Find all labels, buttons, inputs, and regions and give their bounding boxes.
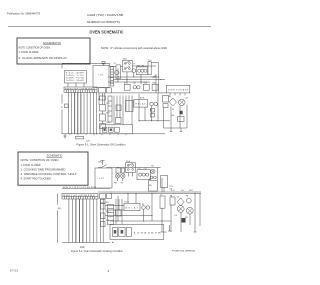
svg-text:3. VARIABLE COOKING CONTROL “H: 3. VARIABLE COOKING CONTROL “HIGH”: [21, 172, 77, 176]
wire hv stub c: [179, 93, 181, 96]
svg-text:SW2: SW2: [153, 76, 157, 78]
svg-text:2. COOKING TIME PROGRAMMED: 2. COOKING TIME PROGRAMMED: [21, 167, 66, 171]
wire stub down a: [117, 68, 119, 82]
control panel box 2: [110, 225, 164, 240]
wire stub down b: [126, 72, 128, 84]
wire pcb v7: [125, 96, 127, 112]
cavity thermal cutout box: [149, 176, 174, 192]
wire bundle w1: [68, 93, 70, 134]
filament block 1: [180, 111, 183, 114]
wire hv v2: [170, 106, 172, 128]
relay aux block a: [151, 109, 155, 113]
pcb connector column 2: [108, 205, 114, 225]
wire pcb2 v3: [121, 199, 123, 225]
thermal cutout TCO1: [148, 62, 151, 75]
wire legend stub a: [67, 83, 69, 87]
terminal block 2C: [107, 194, 112, 199]
svg-text:OL: OL: [133, 64, 135, 66]
svg-text:GY=GRY: GY=GRY: [77, 80, 85, 82]
wire bundle w8: [89, 93, 91, 134]
node N label: [61, 104, 68, 109]
wire interlock stub a: [127, 173, 129, 177]
wire h bus mid: [139, 120, 170, 122]
svg-text:NOTE: “A” indicate components: NOTE: “A” indicate components with poten…: [101, 46, 167, 50]
wire bundle2 w2: [71, 199, 73, 243]
motor labels: [114, 183, 124, 185]
wire pcb2 v1: [115, 199, 117, 225]
terminal block 2B: [100, 194, 106, 199]
svg-text:RY1: RY1: [106, 103, 109, 105]
svg-text:RY2: RY2: [106, 212, 109, 214]
wire pcb v9: [131, 96, 133, 125]
wire relay drop b: [127, 194, 129, 204]
svg-text:RY3: RY3: [106, 122, 109, 124]
HV diode D2 (diamond): [177, 198, 184, 206]
wire hv bottom stub: [164, 127, 188, 129]
svg-text:B W R Y G P O GY BL B W R: B W R Y G P O GY BL B W R: [64, 195, 96, 197]
svg-text:SCHEMATIC: SCHEMATIC: [47, 154, 64, 158]
wire right vertical 2: [158, 63, 160, 93]
node N label 2: [58, 208, 61, 210]
component labels sch1: [98, 59, 189, 125]
svg-text:OL1: OL1: [138, 168, 141, 170]
wire relay drop a: [117, 196, 119, 221]
wire bundle w4: [77, 93, 79, 134]
svg-text:D2: D2: [177, 196, 179, 198]
wire bundle w5: [80, 93, 82, 134]
schematic note box 2: [18, 152, 88, 185]
fuse holder stub: [102, 61, 105, 64]
relay contact block A: [124, 84, 130, 90]
wire bundle w9: [92, 93, 94, 134]
wire cross h1: [108, 76, 159, 78]
svg-text:RY1: RY1: [106, 202, 109, 204]
wire cross2 h2: [105, 209, 124, 211]
wire hv stub a: [169, 93, 171, 96]
wire motor stub b: [122, 178, 124, 181]
HV fuse block 2: [170, 197, 175, 205]
svg-text:RY-M: RY-M: [140, 98, 145, 100]
wire hv2 v2: [180, 212, 182, 232]
HV transformer T1: [160, 196, 165, 208]
wire hv2 v5: [199, 194, 201, 227]
svg-text:(N): (N): [58, 208, 61, 210]
wire interlock stub b: [132, 173, 134, 177]
magnetron filament block: [182, 218, 186, 222]
relay contact block top: [100, 96, 106, 100]
wire to HV box: [111, 92, 166, 94]
svg-text:L.V.T.: L.V.T.: [99, 178, 104, 180]
wire bundle2 w9: [96, 199, 98, 243]
svg-text:GGM (TW) / FGMV15B: GGM (TW) / FGMV15B: [87, 13, 123, 17]
svg-text:RELAY: RELAY: [136, 103, 147, 106]
connector column CN1: [111, 67, 114, 87]
svg-text:D1: D1: [172, 109, 174, 111]
motor cluster box (fan / turntable): [136, 67, 148, 75]
ground hv b: [180, 128, 183, 131]
wire top bus: [132, 65, 156, 67]
wire bundle2 w8: [92, 199, 94, 243]
wire mid vertical b: [98, 93, 100, 105]
HV rectifier block: [163, 96, 169, 103]
wire bundle w2: [71, 93, 73, 134]
ground G3: [161, 231, 167, 233]
magnetron MG2: [186, 207, 193, 214]
turntable motor TM: [151, 169, 155, 173]
wire bundle2 w5: [82, 199, 84, 243]
svg-text:OL2: OL2: [144, 168, 147, 170]
magnetron MG: [178, 117, 184, 122]
wire hv stub b: [174, 93, 176, 96]
wire hv2 v4: [194, 194, 196, 233]
svg-text:SCHEMATIC: SCHEMATIC: [43, 41, 62, 45]
wire relay drop d: [143, 209, 145, 221]
svg-text:F1: F1: [114, 63, 116, 65]
schematic note box 1: [17, 38, 90, 64]
contact block E: [126, 101, 134, 112]
wire bundle2 w4: [78, 199, 80, 243]
buzzer circles 2: [150, 176, 156, 179]
svg-text:BZ: BZ: [149, 179, 151, 181]
wire drop r1: [157, 168, 159, 181]
bus ticks: [70, 134, 126, 135]
wire mid vertical f: [102, 121, 104, 124]
ground G2: [168, 225, 171, 231]
oven lamp OL: [132, 69, 136, 73]
svg-text:OVEN SCHEMATIC: OVEN SCHEMATIC: [90, 30, 124, 35]
wire v mid4: [157, 93, 159, 121]
svg-text:1. DOOR CLOSED: 1. DOOR CLOSED: [19, 50, 39, 54]
wire L line: [104, 63, 117, 66]
svg-text:BZ: BZ: [150, 110, 152, 112]
wire bundle2 w3: [75, 199, 77, 243]
svg-text:SW4: SW4: [152, 83, 156, 85]
contact block D: [116, 118, 122, 124]
relay contact block top 2: [101, 200, 106, 204]
wire v mid2: [144, 107, 146, 121]
wire neutral feed: [62, 62, 104, 64]
wire top bus 2: [107, 167, 161, 169]
turntable motor TM2: [121, 174, 125, 178]
wire fuse to interlock: [120, 66, 122, 68]
wire pcb v4: [116, 96, 118, 118]
wire hv2 left drop: [161, 208, 163, 232]
wire pcb v8: [128, 96, 130, 112]
wire hv v4: [186, 105, 188, 129]
fan motor FM: [115, 174, 119, 178]
svg-text:SW3: SW3: [144, 83, 148, 85]
buzzer circles A: [133, 86, 140, 89]
wire neutral rail 2 upper: [57, 194, 59, 205]
wire bundle w3: [74, 93, 76, 134]
svg-text:RY2: RY2: [106, 113, 109, 115]
junction dots sch1: [96, 76, 161, 134]
buzzer circles 3: [142, 206, 150, 210]
top bus 3 (double): [98, 192, 201, 194]
low voltage transformer unit box: [93, 66, 109, 88]
wire pcb2 v2: [118, 199, 120, 210]
wire bundle2 w1: [68, 199, 70, 243]
svg-text:T1: T1: [160, 194, 162, 196]
svg-text:150: 150: [169, 189, 172, 191]
connector tag under bus: [76, 136, 84, 139]
relay RY2: [100, 114, 106, 121]
terminal strip CN-A: [64, 87, 97, 93]
wire bundle w7: [86, 93, 88, 134]
svg-text:6702: 6702: [10, 268, 19, 272]
bottom bus 2: [62, 242, 110, 244]
wire mid vertical d: [104, 93, 106, 105]
wire pcb v6: [122, 96, 124, 125]
relay aux block b: [151, 114, 155, 118]
wire v mid1: [138, 94, 140, 121]
wire v mid3: [151, 106, 153, 121]
wire right vertical 1: [155, 75, 157, 93]
wire bundle w6: [83, 93, 85, 134]
power relay box RY4: [134, 100, 148, 108]
wire mid vertical e: [102, 111, 104, 114]
HV rectifier circles: [186, 198, 191, 203]
wire h bus mid 2: [110, 220, 170, 222]
terminal block CN-C: [107, 88, 112, 93]
component labels sch2: [98, 160, 189, 244]
svg-text:L.V.T.: L.V.T.: [99, 74, 104, 76]
terminal strip 2: [62, 194, 98, 200]
wire stack rail: [102, 199, 104, 243]
wire pcb v3: [113, 96, 115, 125]
wire hv2 v3: [189, 214, 191, 225]
relay contact block C: [152, 84, 158, 90]
contact block D2: [116, 105, 121, 111]
lamp cluster box 2: [137, 170, 150, 180]
svg-text:RY3: RY3: [106, 220, 109, 222]
wire cross h3: [108, 81, 150, 83]
motor feed block a: [116, 168, 121, 173]
wire drop r2: [161, 178, 163, 192]
wire neutral rail lower: [61, 110, 63, 134]
power relay box RY8: [124, 203, 140, 210]
svg-text:A1: A1: [112, 241, 114, 244]
buzzer circles B: [150, 102, 158, 106]
svg-text:Figure 5-1, Oven Schematic-Off: Figure 5-1, Oven Schematic-Off Condition: [77, 143, 126, 147]
fuse F1: [116, 65, 120, 79]
primary interlock switch box SW1: [123, 60, 133, 72]
svg-text:NOTE: CONDITION OF OVEN: NOTE: CONDITION OF OVEN: [21, 158, 59, 162]
wire right drop to HV: [163, 188, 165, 193]
svg-text:Figure 5-2, Oven Schematic-Coo: Figure 5-2, Oven Schematic-Cooking Condi…: [71, 249, 123, 253]
wire neutral rail upper: [61, 94, 63, 104]
svg-text:1 2 3 4 5 6 7 8: 1 2 3 4 5 6 7 8: [134, 232, 161, 234]
wire cross2 h1: [105, 205, 124, 207]
wire hv2 v1: [170, 205, 172, 232]
wire TCO top link: [151, 62, 158, 64]
svg-text:4. START PAD TOUCHED: 4. START PAD TOUCHED: [21, 177, 52, 181]
HV fuse block: [163, 104, 168, 108]
contact block F: [116, 210, 122, 216]
svg-text:NOTE: CONDITION OF OVEN: NOTE: CONDITION OF OVEN: [19, 45, 51, 49]
svg-text:BZ: BZ: [134, 83, 136, 85]
svg-text:FGMV154 (NFB94): FGMV154 (NFB94): [172, 251, 195, 253]
svg-text:1. DOOR CLOSED: 1. DOOR CLOSED: [21, 163, 41, 167]
wire bundle2 w7: [89, 199, 91, 243]
wire bundle2 w6: [85, 199, 87, 243]
svg-text:B W R Y G P O GY BL B W R: B W R Y G P O GY BL B W R: [65, 89, 96, 91]
wire legend stub c: [83, 83, 85, 87]
relay RY6: [101, 213, 106, 219]
relay RY7: [101, 222, 106, 227]
wire relay drop e: [151, 194, 153, 222]
svg-text:SW-1: SW-1: [123, 59, 127, 61]
wire relay drop c: [135, 194, 137, 204]
svg-text:220: 220: [80, 245, 85, 249]
wire neutral stub: [61, 63, 63, 68]
interlock relay box 2: [126, 163, 136, 173]
relay RY5: [101, 204, 106, 210]
ground G1: [63, 134, 66, 138]
wire above strip 2: [62, 187, 110, 189]
relay RY1: [100, 105, 106, 112]
wire stub down c: [133, 73, 135, 78]
switch blade SW2: [153, 74, 157, 78]
header rule: [8, 26, 211, 28]
wire motor stub a: [117, 178, 119, 181]
wire mid vertical c: [102, 93, 104, 105]
bottom bus: [62, 133, 166, 135]
svg-text:B W R Y G P O GY BL B W: B W R Y G P O GY BL B W: [63, 187, 97, 189]
svg-text:SW: SW: [149, 185, 152, 187]
HV capacitor C3: [177, 206, 184, 213]
door sensing switch SW2: [98, 161, 107, 168]
HV capacitor C2: [179, 99, 185, 105]
relay RY3: [100, 124, 106, 129]
svg-text:O=ORG: O=ORG: [66, 80, 74, 82]
high voltage section box: [166, 85, 190, 93]
control panel box: [100, 125, 133, 134]
wire hv v3: [179, 106, 181, 129]
HV diode D1 (diamond): [169, 98, 176, 106]
junction dots sch2: [117, 167, 195, 222]
wire cross h2: [113, 79, 165, 81]
terminal block CN-B: [99, 88, 106, 93]
fuse lamp circle: [115, 70, 119, 74]
svg-text:Publication No: 5995446779: Publication No: 5995446779: [7, 11, 40, 15]
relay contact block B: [143, 84, 149, 90]
svg-text:BZ: BZ: [142, 204, 144, 206]
wire legend stub b: [75, 83, 77, 87]
pcb connector column 1: [108, 96, 112, 122]
wire cross2 h3: [105, 215, 152, 217]
svg-text:HIGH VOLTAGE: HIGH VOLTAGE: [168, 88, 189, 91]
low voltage transformer unit box 2: [95, 168, 112, 188]
ground G4: [193, 231, 196, 233]
bus labels above: [171, 190, 193, 192]
motor feed block b: [122, 168, 125, 173]
wire pcb v5: [119, 96, 121, 118]
wire hv stub d: [184, 93, 186, 96]
wire hv v1: [163, 108, 165, 129]
wire bundle2 w10: [99, 199, 101, 243]
wire color legend box: [65, 71, 87, 84]
svg-text:RY-M: RY-M: [125, 202, 130, 204]
wire neutral rail 2 lower: [57, 211, 59, 243]
wire mid vertical a: [96, 93, 98, 134]
svg-text:NHR843 GC-5584(TK): NHR843 GC-5584(TK): [87, 20, 120, 24]
wire stub down d: [140, 75, 142, 85]
svg-text:2. CLOCK APPEARS ON DISPLAY: 2. CLOCK APPEARS ON DISPLAY: [19, 56, 68, 60]
ground hv a: [170, 128, 173, 131]
